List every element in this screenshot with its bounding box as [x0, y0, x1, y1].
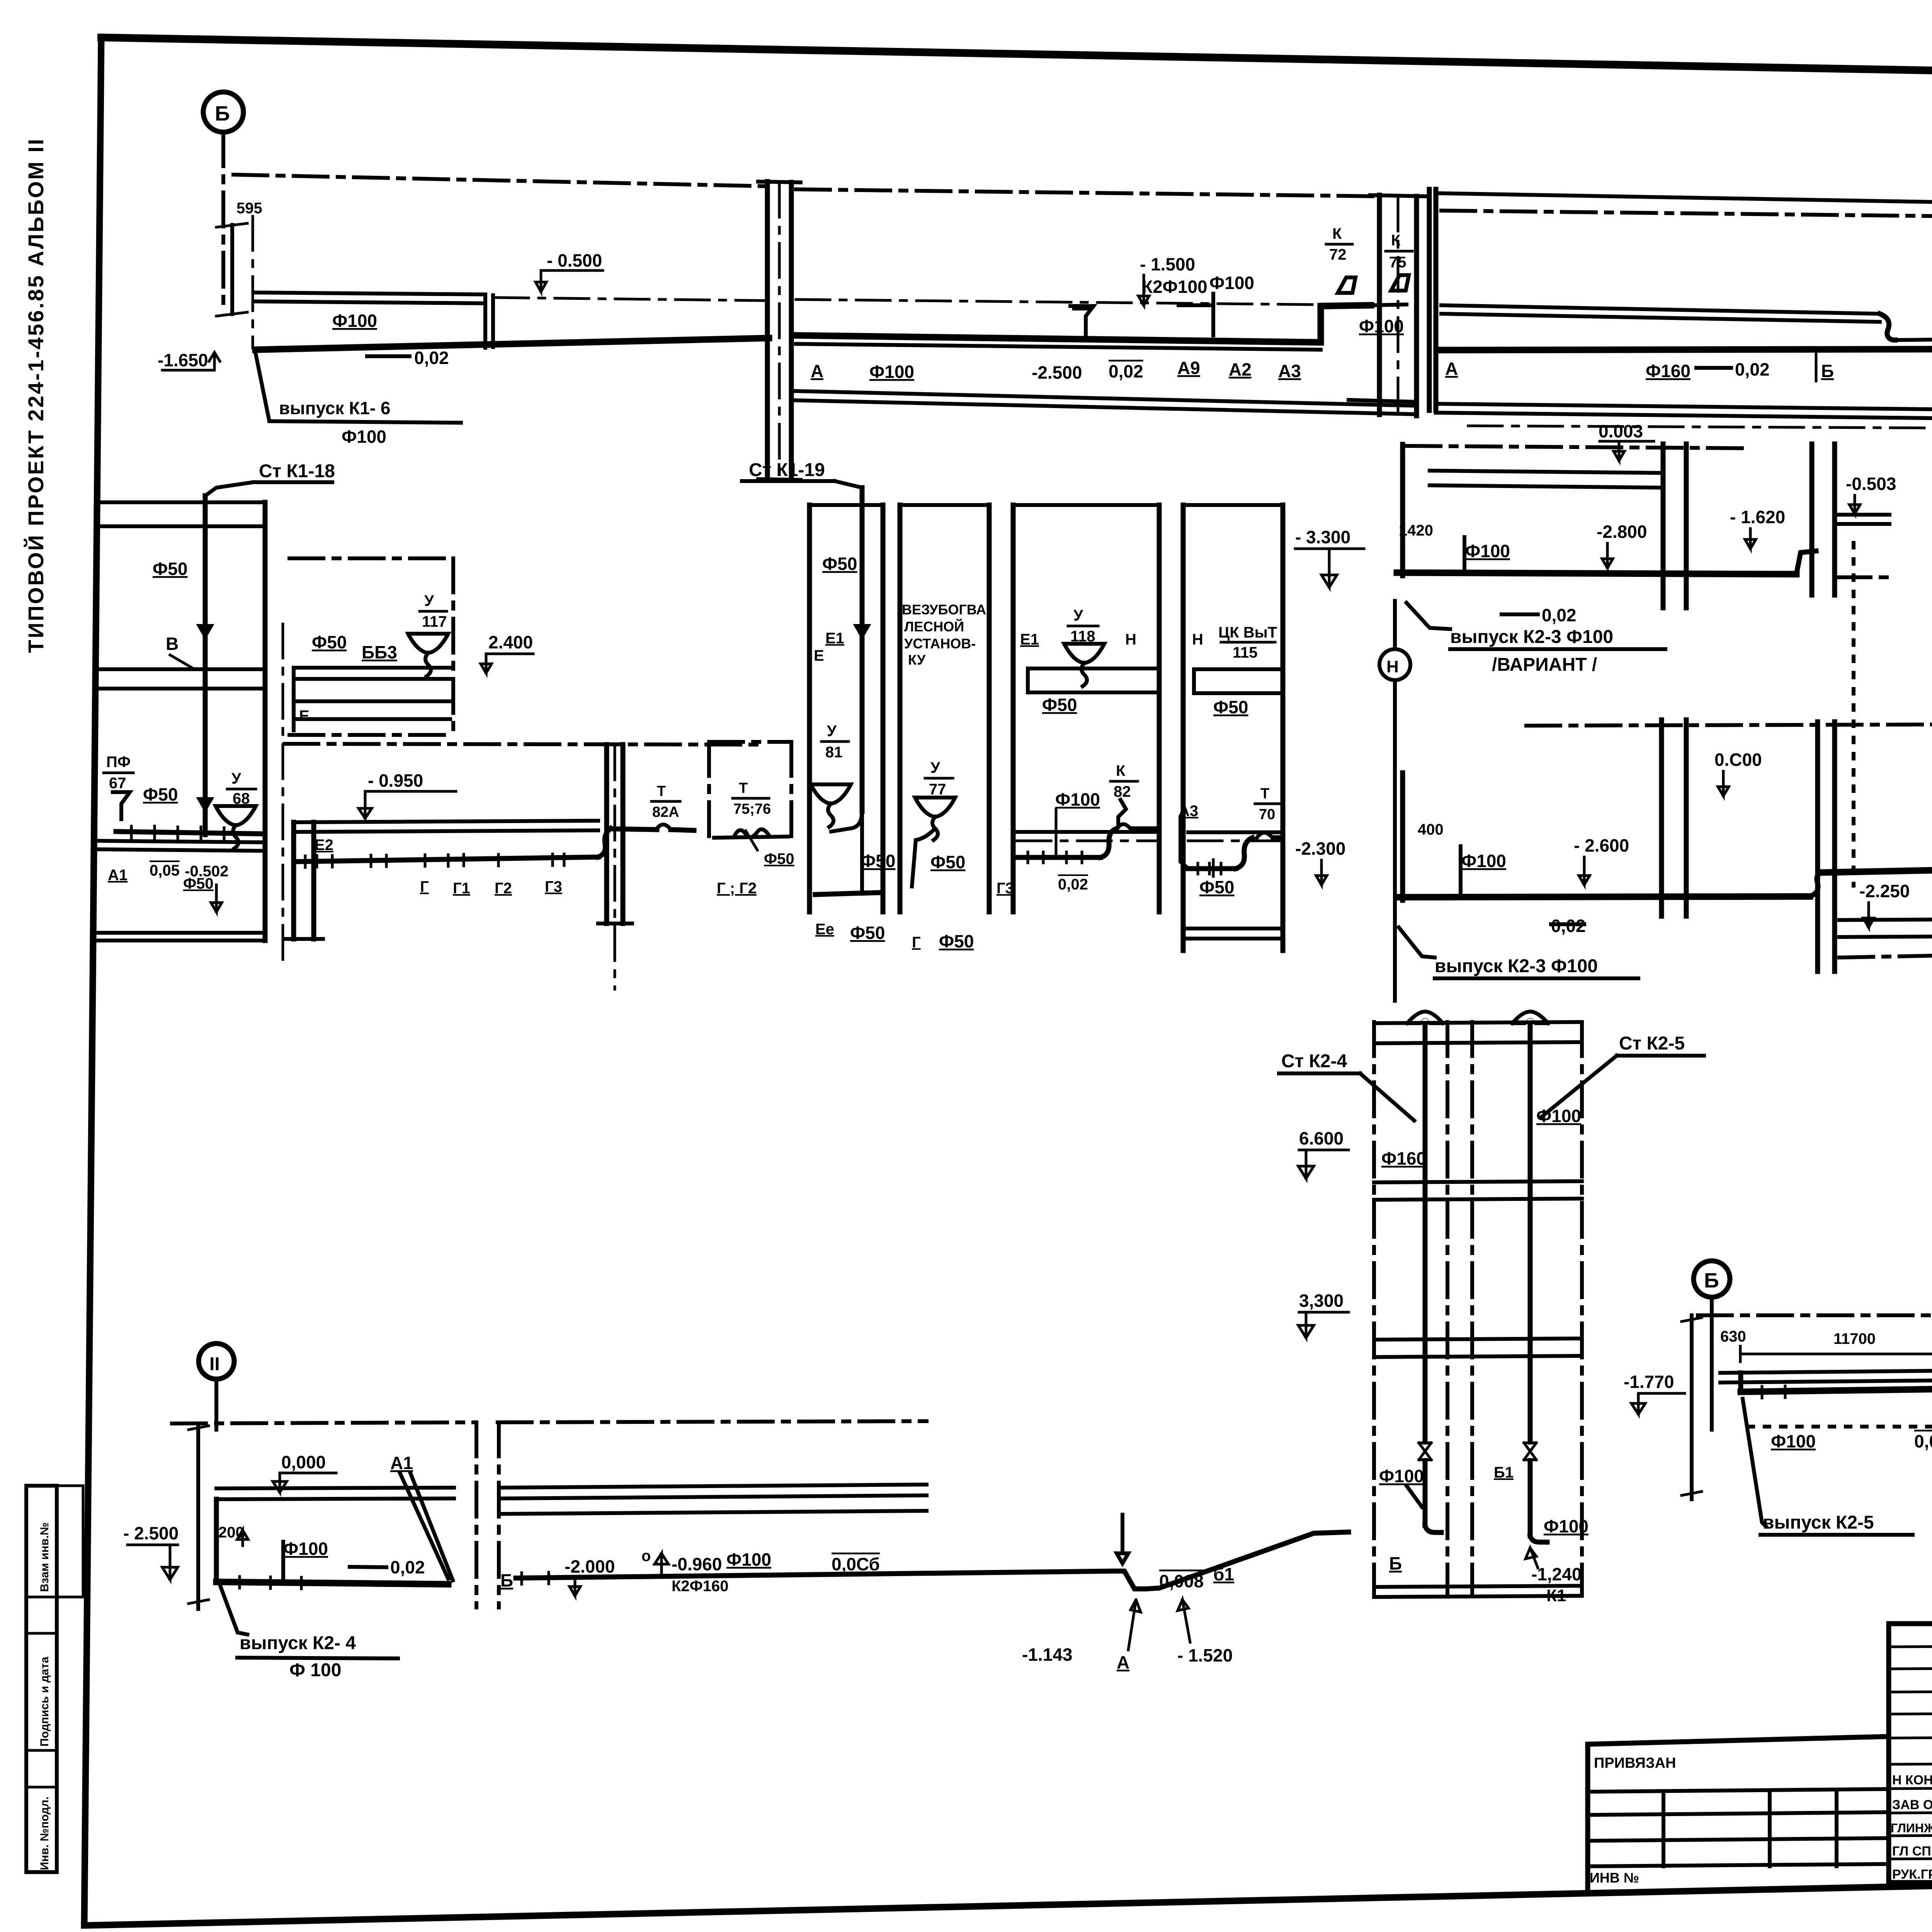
left column of strip — [291, 822, 296, 939]
svg-text:- 3.300: - 3.300 — [1295, 527, 1350, 547]
svg-text:-2.800: -2.800 — [1597, 522, 1647, 542]
svg-text:-2.300: -2.300 — [1295, 838, 1345, 859]
lower strip with G labels — [284, 744, 757, 745]
svg-text:0,000: 0,000 — [281, 1452, 326, 1472]
svg-text:Б: Б — [500, 1570, 513, 1590]
svg-text:82: 82 — [1114, 783, 1131, 800]
svg-text:Т: Т — [657, 783, 666, 799]
upper-right section vypusk K2-3 variant — [1400, 444, 1405, 576]
vypusk K2-4 — [220, 1586, 247, 1634]
svg-text:Ф50: Ф50 — [939, 931, 974, 951]
svg-text:Г ; Г2: Г ; Г2 — [717, 880, 757, 897]
svg-text:А1: А1 — [108, 867, 128, 884]
svg-text:Ф 100: Ф 100 — [289, 1660, 341, 1680]
svg-text:Б1: Б1 — [1494, 1464, 1514, 1481]
svg-text:Е: Е — [299, 707, 310, 724]
room2 — [474, 1422, 478, 1607]
stack K1-18 — [203, 496, 208, 835]
svg-text:-0.503: -0.503 — [1846, 474, 1896, 494]
svg-text:выпуск К1- 6: выпуск К1- 6 — [279, 398, 391, 418]
svg-text:0,02: 0,02 — [1735, 359, 1770, 379]
svg-text:Ф100: Ф100 — [1055, 789, 1100, 810]
svg-text:0,02: 0,02 — [390, 1557, 425, 1577]
svg-text:Г3: Г3 — [997, 880, 1014, 897]
svg-text:0,05: 0,05 — [150, 862, 180, 879]
svg-text:Ф50: Ф50 — [850, 923, 885, 943]
svg-text:КУ: КУ — [908, 652, 926, 668]
svg-text:Ст К2-4: Ст К2-4 — [1281, 1051, 1347, 1071]
mid floor lines — [97, 667, 265, 671]
svg-text:Ф50: Ф50 — [861, 851, 895, 871]
svg-text:Н: Н — [1386, 657, 1399, 676]
svg-text:-1.650: -1.650 — [158, 350, 208, 370]
bottom cap sec2 — [1349, 400, 1417, 402]
svg-text:Ст К1-19: Ст К1-19 — [749, 460, 825, 480]
svg-text:-1.143: -1.143 — [1022, 1645, 1072, 1665]
vypusk K2-5 label — [1743, 1399, 1766, 1526]
pipe room1 — [216, 1582, 448, 1584]
svg-text:- 2.500: - 2.500 — [123, 1523, 179, 1543]
svg-text:У: У — [827, 723, 837, 740]
central signature grid — [1889, 1624, 1932, 1883]
twin towers — [1372, 1022, 1376, 1595]
svg-text:Ст К2-5: Ст К2-5 — [1619, 1033, 1685, 1054]
bottom border — [84, 1869, 1932, 1925]
svg-text:Ф100: Ф100 — [1209, 273, 1254, 293]
svg-text:Подпись и дата: Подпись и дата — [38, 1656, 51, 1747]
svg-text:Инв. №подл.: Инв. №подл. — [38, 1796, 51, 1870]
svg-text:Ф50: Ф50 — [1042, 695, 1077, 715]
svg-text:Ф50: Ф50 — [930, 852, 965, 872]
svg-text:А: А — [1445, 359, 1458, 379]
ceiling dash-dot room1 — [172, 1422, 475, 1423]
svg-text:Е1: Е1 — [1020, 631, 1039, 648]
sec3 ceiling — [1436, 193, 1932, 209]
svg-text:115: 115 — [1233, 644, 1258, 661]
svg-text:- 0.950: - 0.950 — [368, 770, 423, 791]
svg-text:630: 630 — [1720, 1328, 1746, 1345]
svg-text:Ф100: Ф100 — [332, 311, 377, 331]
svg-text:0,02: 0,02 — [1109, 361, 1143, 381]
room c — [1011, 505, 1016, 912]
svg-text:Взам инв.№: Взам инв.№ — [38, 1522, 51, 1592]
II circle bottom-left — [199, 1344, 234, 1379]
svg-text:Ф100: Ф100 — [1536, 1106, 1581, 1126]
svg-text:Ф100: Ф100 — [1544, 1516, 1588, 1536]
svg-text:А1: А1 — [390, 1453, 413, 1473]
svg-text:0,02: 0,02 — [414, 348, 449, 368]
slope 0.02 sec1 — [367, 354, 410, 358]
svg-text:Т: Т — [739, 780, 748, 796]
svg-text:-0.960: -0.960 — [672, 1554, 722, 1574]
svg-text:ГЛИНЖ.ПР: ГЛИНЖ.ПР — [1891, 1821, 1932, 1835]
svg-text:Ф160: Ф160 — [1381, 1148, 1426, 1168]
leader from circle / axis dash-dot — [221, 132, 225, 313]
svg-text:-2.000: -2.000 — [565, 1556, 615, 1577]
svg-text:ЛЕСНОЙ: ЛЕСНОЙ — [904, 618, 964, 634]
bottom lines — [97, 931, 265, 935]
dotted line — [1748, 1425, 1932, 1429]
main sewer line sec1 — [255, 338, 769, 350]
svg-text:Н: Н — [1192, 631, 1203, 648]
svg-text:К2Ф160: К2Ф160 — [672, 1578, 729, 1595]
left vertical dim — [1690, 1315, 1694, 1499]
svg-text:0,0Сб: 0,0Сб — [832, 1554, 880, 1574]
svg-text:А: А — [1117, 1652, 1129, 1672]
left border — [84, 37, 101, 1925]
svg-text:Н КОНТР: Н КОНТР — [1892, 1773, 1932, 1787]
wall sec2-sec3 — [1377, 195, 1382, 415]
ceiling dash-dot line sec1 — [233, 175, 767, 186]
svg-text:Ее: Ее — [815, 921, 834, 938]
main line sec2 with step up — [796, 305, 1371, 342]
svg-text:- 2.600: - 2.600 — [1574, 835, 1629, 855]
svg-text:Ф50: Ф50 — [312, 632, 347, 652]
svg-text:Б: Б — [1821, 361, 1834, 381]
svg-text:595: 595 — [236, 200, 262, 217]
svg-text:ЗАВ ОТД: ЗАВ ОТД — [1892, 1798, 1932, 1812]
svg-text:Ф100: Ф100 — [726, 1549, 771, 1570]
wall between sec1-sec2 — [765, 182, 770, 479]
columns of strip — [604, 745, 609, 923]
svg-text:К: К — [1332, 225, 1342, 242]
svg-text:выпуск К2-5: выпуск К2-5 — [1763, 1512, 1874, 1533]
bottom-right section vypusk K2-5 — [1694, 1261, 1730, 1297]
svg-text:У: У — [231, 770, 241, 787]
svg-text:К: К — [1116, 762, 1126, 779]
svg-text:А2: А2 — [1229, 359, 1252, 379]
svg-text:Г3: Г3 — [545, 878, 562, 895]
dim vertical left — [196, 1423, 200, 1609]
svg-text:УСТАНОВ-: УСТАНОВ- — [904, 636, 976, 651]
svg-text:Ф100: Ф100 — [342, 427, 386, 447]
svg-text:У: У — [424, 592, 434, 609]
svg-text:ПФ: ПФ — [106, 753, 131, 770]
sec3 left wall — [1427, 189, 1432, 410]
svg-text:-2.250: -2.250 — [1859, 881, 1910, 901]
svg-text:1420: 1420 — [1399, 522, 1433, 539]
svg-text:ІІ: ІІ — [209, 1354, 220, 1374]
floor pair — [1720, 1363, 1932, 1373]
left stamp column — [26, 1486, 83, 1872]
sec3 bottom floor pair — [1436, 404, 1932, 413]
svg-text:Ф100: Ф100 — [1461, 851, 1506, 871]
svg-text:0,02: 0,02 — [1542, 605, 1577, 625]
svg-text:0.С00: 0.С00 — [1714, 750, 1762, 770]
sec3 upper pipe pair — [1441, 305, 1880, 314]
floor pair of strip — [294, 821, 598, 822]
svg-text:Ф100: Ф100 — [1771, 1431, 1816, 1451]
sec3 thin after jog — [1895, 335, 1932, 340]
strip pipe — [294, 857, 598, 862]
step jog — [1880, 314, 1895, 340]
wall right of room1 — [263, 502, 268, 940]
svg-text:/ВАРИАНТ /: /ВАРИАНТ / — [1492, 655, 1597, 675]
svg-text:Г2: Г2 — [495, 880, 512, 897]
room b — [898, 505, 903, 912]
svg-text:К: К — [1391, 232, 1401, 249]
thin mid line sec2 — [796, 299, 1379, 305]
svg-text:11700: 11700 — [1833, 1330, 1876, 1347]
svg-text:67: 67 — [109, 775, 126, 792]
svg-text:400: 400 — [1418, 821, 1444, 838]
svg-text:Т: Т — [1260, 786, 1269, 802]
bottom floor pair sec2 — [795, 391, 1417, 406]
svg-text:ЦК ВыТ: ЦК ВыТ — [1218, 624, 1277, 641]
svg-text:77: 77 — [929, 781, 946, 798]
svg-text:выпуск К2-3 Ф100: выпуск К2-3 Ф100 — [1435, 956, 1598, 976]
svg-text:ГЛ СПЕЦ: ГЛ СПЕЦ — [1892, 1844, 1932, 1859]
svg-text:Ф50: Ф50 — [143, 784, 178, 804]
dash-dot thin to wall — [495, 298, 767, 301]
svg-text:2.400: 2.400 — [488, 632, 533, 652]
svg-text:К2Ф100: К2Ф100 — [1142, 277, 1207, 297]
svg-text:А3: А3 — [1278, 361, 1301, 381]
svg-text:Г: Г — [912, 934, 921, 951]
svg-text:-0.502: -0.502 — [185, 863, 228, 880]
floor lines top — [97, 500, 265, 504]
svg-text:В: В — [166, 634, 179, 654]
svg-text:75: 75 — [1389, 254, 1406, 271]
svg-text:ВЕЗУБОГВА-: ВЕЗУБОГВА- — [902, 602, 991, 617]
floor pair room1 — [216, 1488, 454, 1488]
svg-text:А: А — [811, 361, 823, 381]
svg-text:выпуск К2-3 Ф100: выпуск К2-3 Ф100 — [1450, 627, 1613, 647]
svg-text:У: У — [930, 759, 940, 776]
axis circle B — [203, 92, 243, 132]
sec3 main pipe — [1438, 338, 1932, 350]
svg-text:Ф50: Ф50 — [764, 850, 794, 867]
svg-text:0,02: 0,02 — [1058, 876, 1088, 893]
svg-text:Г1: Г1 — [453, 880, 470, 897]
svg-text:Ст К1-18: Ст К1-18 — [259, 461, 335, 481]
svg-text:Ф100: Ф100 — [1359, 316, 1404, 336]
dotted vertical — [1852, 543, 1855, 886]
svg-text:Н: Н — [1125, 631, 1136, 648]
middle jog with fixtures — [1113, 1571, 1146, 1589]
svg-text:Ф50: Ф50 — [1213, 697, 1248, 717]
svg-text:75;76: 75;76 — [733, 801, 771, 817]
main pipe — [1741, 1379, 1932, 1392]
svg-text:- 0.500: - 0.500 — [547, 250, 602, 270]
svg-text:- 1.520: - 1.520 — [1177, 1645, 1233, 1665]
svg-text:Ф100: Ф100 — [1379, 1466, 1424, 1486]
top border — [101, 37, 1932, 84]
svg-text:70: 70 — [1259, 806, 1275, 823]
lower-right section vypusk K2-3 — [1526, 724, 1932, 726]
room a — [807, 505, 812, 912]
svg-text:Е2: Е2 — [315, 837, 333, 854]
pipe with hatches — [116, 832, 264, 834]
vypusk K1-6 leader and label — [255, 352, 461, 423]
svg-text:б1: б1 — [1213, 1564, 1234, 1584]
room E (upper middle) — [289, 556, 453, 560]
svg-text:ББ3: ББ3 — [362, 642, 397, 662]
axis dash-dot at pipe start — [252, 216, 254, 348]
svg-text:- 1.620: - 1.620 — [1730, 507, 1785, 527]
svg-text:Ф100: Ф100 — [1465, 541, 1510, 561]
svg-text:Ф50: Ф50 — [153, 559, 187, 579]
svg-text:81: 81 — [825, 744, 843, 761]
svg-text:Ф50: Ф50 — [822, 554, 857, 574]
svg-text:82А: 82А — [652, 804, 679, 820]
left revision table — [1588, 1736, 1888, 1889]
svg-text:117: 117 — [422, 613, 447, 630]
svg-text:- 1.500: - 1.500 — [1140, 254, 1195, 274]
svg-text:0,008: 0,008 — [1159, 1571, 1204, 1591]
check valve traps on upper pipe — [1338, 277, 1355, 293]
svg-text:выпуск К2- 4: выпуск К2- 4 — [240, 1633, 356, 1653]
svg-text:Б: Б — [215, 102, 230, 125]
svg-text:Ф100: Ф100 — [283, 1539, 328, 1559]
svg-text:0,07: 0,07 — [1914, 1431, 1932, 1451]
svg-text:У: У — [1073, 607, 1083, 624]
svg-text:Ф160: Ф160 — [1646, 361, 1690, 381]
svg-text:72: 72 — [1329, 246, 1347, 263]
H circle node — [1379, 649, 1410, 680]
svg-text:-1.770: -1.770 — [1624, 1372, 1674, 1392]
svg-text:А9: А9 — [1177, 358, 1200, 378]
svg-text:Е1: Е1 — [825, 630, 844, 647]
svg-text:ТИПОВОЙ ПРОЕКТ 224-1-456.85 А: ТИПОВОЙ ПРОЕКТ 224-1-456.85 АЛЬБОМ ІІ — [24, 138, 48, 653]
svg-text:Ф50: Ф50 — [1199, 877, 1234, 897]
trap at 2800 — [1070, 306, 1094, 323]
svg-text:Г: Г — [420, 878, 429, 895]
svg-text:Ф100: Ф100 — [869, 362, 914, 382]
svg-text:ПРИВЯЗАН: ПРИВЯЗАН — [1594, 1755, 1676, 1771]
room d — [1181, 505, 1186, 951]
svg-text:Б: Б — [1389, 1553, 1402, 1573]
room T75,76 dash-dot box — [709, 740, 791, 744]
svg-text:Е: Е — [814, 647, 824, 664]
svg-text:-2.500: -2.500 — [1032, 362, 1082, 383]
svg-text:3,300: 3,300 — [1299, 1291, 1344, 1311]
floors crossing towers — [1374, 1181, 1582, 1182]
svg-text:0,02: 0,02 — [1551, 916, 1586, 936]
jog up at column — [598, 828, 611, 857]
svg-text:6.600: 6.600 — [1299, 1128, 1344, 1148]
svg-text:Б: Б — [1704, 1269, 1719, 1292]
thin line under main sec2 — [796, 344, 1321, 350]
pipe pair sec1 — [253, 293, 485, 294]
svg-text:0.003: 0.003 — [1599, 421, 1643, 441]
dimension vertical 595 — [230, 225, 234, 314]
svg-text:РУК.ГР: РУК.ГР — [1892, 1867, 1932, 1882]
ceiling dash-dot sec2 — [796, 189, 1379, 196]
svg-text:ИНВ №: ИНВ № — [1590, 1870, 1639, 1886]
svg-text:о: о — [641, 1548, 651, 1565]
